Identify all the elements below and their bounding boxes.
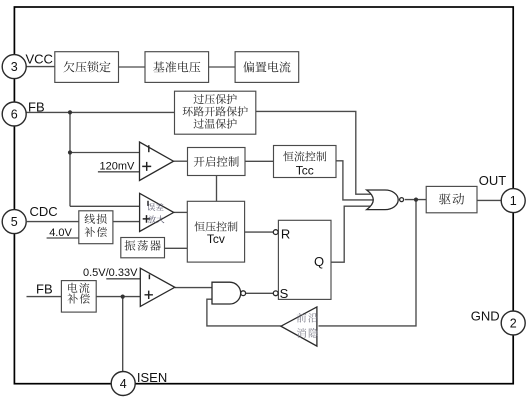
block RS flip-flop [278,220,331,299]
wire Tcc output to NOR gate mid input [336,161,374,200]
svg-text:4: 4 [120,377,127,391]
box-label 补偿(curr) [68,294,90,304]
block oscillator 振荡器 [121,238,165,258]
NOR gate body [367,190,399,210]
block on-control 开启控制 [188,148,246,176]
R input inverting bubble [273,230,278,235]
wire error-amp output to Tcv box [174,211,189,213]
comparator U1 triangle [140,142,174,181]
block UVLO 欠压锁定 [55,52,119,83]
pin 4 circle [111,372,135,396]
wire 4.0V reference into line-comp [47,237,79,239]
box-label 线损 [85,214,107,224]
wire U1 output to on-control box [174,160,188,162]
wire protection output to NOR gate top input [256,111,372,194]
box-label 驱动 [439,193,464,205]
comparator U3 triangle [140,268,175,306]
svg-text:S: S [280,286,289,301]
S input inverting bubble [273,291,278,296]
svg-text:Q: Q [314,254,324,269]
pin 6 circle [2,102,26,126]
blanking text 前沿 [297,313,318,323]
svg-text:0.5V/0.33V: 0.5V/0.33V [83,267,138,279]
wire line-comp output to U2 plus input [113,221,141,223]
box-label 欠压锁定 [63,61,110,72]
svg-text:CDC: CDC [30,204,58,219]
wire 120mV reference into U1 plus input [98,171,141,173]
block reference voltage 基准电压 [145,52,209,83]
wire pin3 to UVLO [26,66,55,68]
U3 minus tick [148,274,150,279]
junction node FB/protection [68,110,72,114]
block bias current 偏置电流 [235,52,299,83]
wire blanking output to NAND lower input [207,299,281,326]
block constant-current control Tcc [274,146,337,178]
erramp text 误差 [147,203,163,211]
svg-text:120mV: 120mV [100,161,136,173]
junction node FB/comparator [68,150,72,154]
block line-loss compensation 线损补偿 [79,211,113,244]
wire REF to BIAS [209,66,236,68]
U2 minus tick [147,201,149,206]
wire Tcv output to R input [245,231,274,233]
svg-text:R: R [281,227,290,242]
svg-text:2: 2 [510,316,517,330]
pin 5 circle [2,210,26,234]
svg-text:FB: FB [28,99,45,114]
box-label 开启控制 [194,156,239,167]
wire FB net: pin6 to protection box [26,111,175,113]
svg-text:3: 3 [11,60,18,74]
wire ISEN net down to pin4 [122,297,124,372]
U1 minus tick [148,145,150,152]
pin 3 circle [2,55,26,79]
wire oscillator to Tcv box [165,247,190,249]
wire FB to error-amp U2 top input [70,205,141,207]
NOR output bubble [400,198,404,202]
U2 plus sign [143,215,151,223]
protection line1 [194,94,237,104]
wire node to blanking buffer input [319,200,417,326]
svg-text:Tcv: Tcv [207,232,225,246]
wire on-control down to Tcv box [216,176,218,202]
wire UVLO to REF [119,66,146,68]
svg-text:6: 6 [11,107,18,121]
svg-text:GND: GND [471,308,500,323]
U3 plus sign [145,291,153,299]
box-label 恒流控制 [283,151,326,161]
error amplifier U2 triangle [140,193,174,231]
block constant-voltage control Tcv [187,201,244,262]
wire driver to pin1 [477,199,501,201]
svg-text:4.0V: 4.0V [49,227,72,239]
block protection 过压/环路开路/过温保护 [175,91,256,134]
wire current-comp output to U3 plus input [96,296,141,298]
box-label 偏置电流 [243,61,290,72]
pin 1 circle [501,189,525,213]
svg-text:1: 1 [510,194,517,208]
NAND gate body [212,282,241,304]
box-label 基准电压 [153,61,200,72]
protection line3 [194,119,237,129]
junction node NOR output [414,198,418,202]
protection line2 [183,106,248,116]
block driver 驱动 [426,186,477,212]
erramp text 放大 [148,215,164,223]
box-label 振荡器 [125,240,161,251]
junction node ISEN [121,295,125,299]
U1 plus sign [142,162,151,171]
svg-text:ISEN: ISEN [137,370,167,385]
wire FB stub to current-comp box [27,296,62,298]
svg-text:5: 5 [11,215,18,229]
svg-text:VCC: VCC [26,51,53,66]
wire Q output to NOR gate bottom input [331,206,372,262]
wire FB to comparator U1 minus input [70,152,141,154]
svg-text:FB: FB [36,281,53,296]
wire NOR output to driver [405,199,426,201]
box-label 补偿(line) [85,227,107,237]
blanking text 消隐 [297,328,318,338]
svg-text:Tcc: Tcc [296,163,314,177]
pin 2 circle [501,311,525,335]
leading-edge blanking buffer triangle [281,307,317,346]
wire on-control to Tcc box [245,160,274,162]
block current compensation 电流补偿 [61,281,96,313]
svg-text:OUT: OUT [479,173,507,188]
NAND output bubble [241,291,246,296]
box-label 电流 [68,283,89,293]
box-label 恒压控制 [195,221,238,231]
wire 0.33V reference into U3 minus input [106,278,141,280]
wire comparator U3 output to NAND upper input [175,287,214,289]
wire pin5 CDC to line-comp box [27,221,79,223]
wire FB branch down 2 [69,153,71,207]
wire FB branch down [69,112,71,152]
wire NAND output to S input [246,292,274,294]
